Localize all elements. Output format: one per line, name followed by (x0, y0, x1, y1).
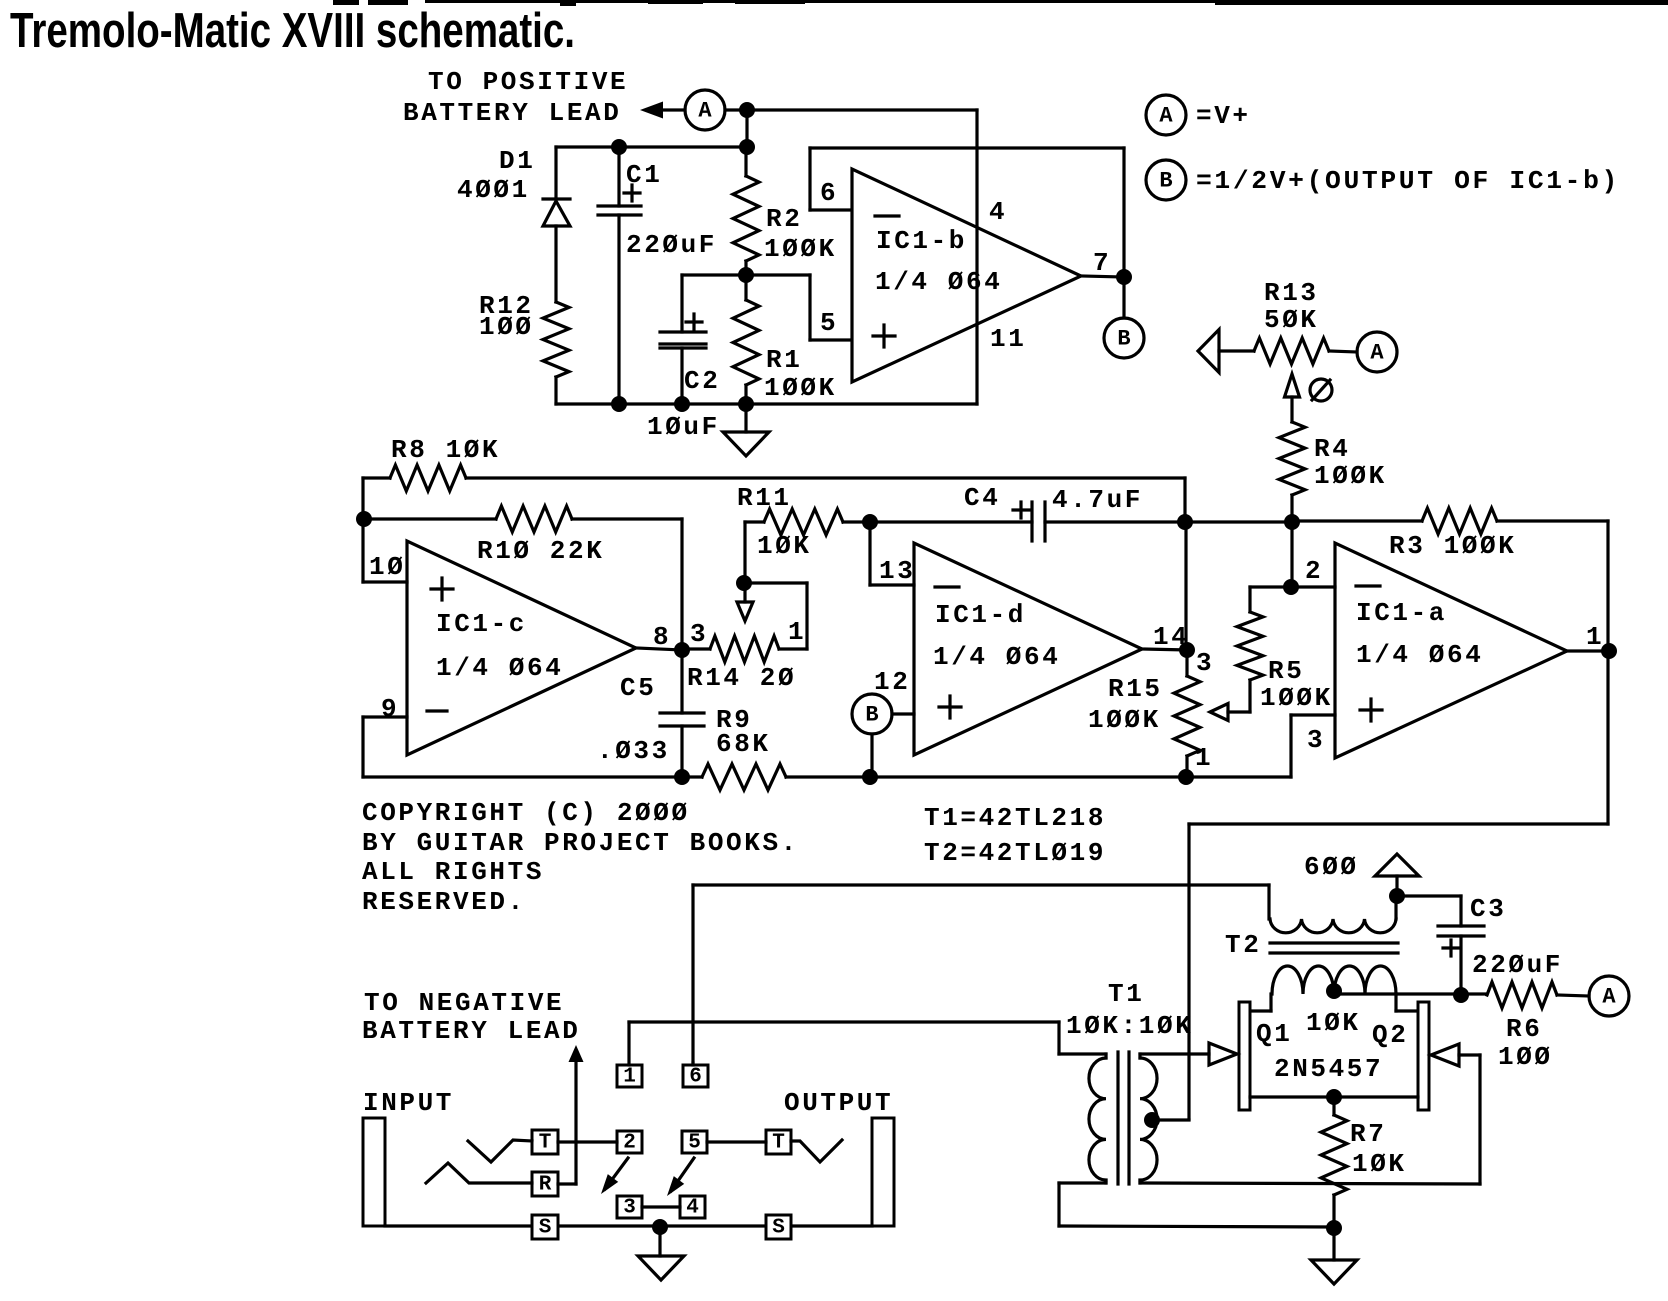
svg-text:A: A (1602, 985, 1616, 1010)
svg-text:Q2: Q2 (1372, 1020, 1408, 1050)
svg-text:BY GUITAR PROJECT BOOKS.: BY GUITAR PROJECT BOOKS. (362, 828, 799, 858)
svg-text:S: S (772, 1217, 785, 1240)
svg-text:Q1: Q1 (1256, 1019, 1292, 1049)
svg-text:6ØØ: 6ØØ (1304, 852, 1359, 882)
svg-text:C1: C1 (626, 160, 662, 190)
svg-text:A: A (698, 99, 712, 124)
svg-text:C3: C3 (1470, 894, 1506, 924)
svg-text:9: 9 (381, 694, 399, 724)
svg-text:R15: R15 (1108, 674, 1163, 704)
svg-text:1ØØ: 1ØØ (1498, 1042, 1553, 1072)
svg-text:3: 3 (1307, 725, 1325, 755)
svg-text:ALL RIGHTS: ALL RIGHTS (362, 857, 544, 887)
svg-text:11: 11 (990, 324, 1026, 354)
svg-text:4: 4 (686, 1197, 699, 1220)
svg-text:BATTERY LEAD: BATTERY LEAD (403, 98, 621, 128)
svg-text:22ØuF: 22ØuF (1472, 950, 1563, 980)
svg-text:22ØuF: 22ØuF (626, 230, 717, 260)
svg-text:1ØØK: 1ØØK (764, 373, 837, 403)
svg-text:OUTPUT: OUTPUT (784, 1088, 893, 1118)
svg-text:R4: R4 (1314, 434, 1350, 464)
svg-text:6: 6 (689, 1066, 702, 1089)
svg-text:T2: T2 (1225, 930, 1261, 960)
svg-text:1: 1 (1195, 743, 1213, 773)
svg-text:1Ø: 1Ø (369, 552, 405, 582)
svg-text:=1/2V+(OUTPUT OF IC1-b): =1/2V+(OUTPUT OF IC1-b) (1196, 166, 1620, 196)
svg-text:D1: D1 (499, 146, 535, 176)
svg-text:1/4 Ø64: 1/4 Ø64 (1356, 640, 1483, 670)
svg-text:R8 1ØK: R8 1ØK (391, 435, 500, 465)
svg-text:R5: R5 (1268, 656, 1304, 686)
svg-text:1ØK:1ØK: 1ØK:1ØK (1066, 1011, 1193, 1041)
svg-text:12: 12 (874, 667, 910, 697)
svg-text:3: 3 (1196, 648, 1214, 678)
svg-text:5: 5 (688, 1132, 701, 1155)
svg-text:TO POSITIVE: TO POSITIVE (428, 67, 628, 97)
svg-text:BATTERY LEAD: BATTERY LEAD (362, 1016, 580, 1046)
svg-text:S: S (539, 1217, 552, 1240)
svg-text:T: T (772, 1132, 785, 1155)
svg-text:4: 4 (989, 197, 1007, 227)
svg-text:13: 13 (879, 556, 915, 586)
svg-text:6: 6 (820, 178, 838, 208)
svg-text:R13: R13 (1264, 278, 1319, 308)
svg-text:2: 2 (623, 1132, 636, 1155)
svg-text:B: B (1117, 327, 1130, 352)
svg-text:R: R (539, 1174, 552, 1197)
svg-text:4ØØ1: 4ØØ1 (457, 175, 530, 205)
svg-text:C2: C2 (684, 366, 720, 396)
svg-text:1ØK: 1ØK (1306, 1008, 1361, 1038)
svg-text:1ØØK: 1ØØK (764, 234, 837, 264)
svg-text:7: 7 (1093, 248, 1111, 278)
svg-text:14: 14 (1153, 622, 1189, 652)
svg-text:3: 3 (623, 1197, 636, 1220)
svg-text:IC1-d: IC1-d (935, 600, 1026, 630)
svg-text:RESERVED.: RESERVED. (362, 887, 526, 917)
svg-text:1: 1 (788, 617, 806, 647)
svg-text:B: B (1159, 169, 1172, 194)
svg-text:T2=42TLØ19: T2=42TLØ19 (924, 838, 1106, 868)
svg-text:R3 1ØØK: R3 1ØØK (1389, 531, 1516, 561)
svg-text:1ØK: 1ØK (1352, 1149, 1407, 1179)
svg-text:1ØØK: 1ØØK (1260, 683, 1333, 713)
svg-text:C5: C5 (620, 673, 656, 703)
svg-text:=V+: =V+ (1196, 101, 1251, 131)
svg-text:C4: C4 (964, 483, 1000, 513)
svg-text:IC1-a: IC1-a (1356, 598, 1447, 628)
svg-text:R14 2Ø: R14 2Ø (687, 663, 796, 693)
svg-text:R11: R11 (737, 483, 792, 513)
svg-text:T: T (539, 1132, 552, 1155)
svg-text:IC1-b: IC1-b (876, 226, 967, 256)
svg-text:1/4 Ø64: 1/4 Ø64 (933, 642, 1060, 672)
svg-text:1ØK: 1ØK (757, 531, 812, 561)
svg-text:1ØuF: 1ØuF (647, 412, 720, 442)
svg-text:1ØØK: 1ØØK (1314, 461, 1387, 491)
svg-text:8: 8 (653, 622, 671, 652)
svg-text:T1: T1 (1108, 979, 1144, 1009)
svg-text:1/4 Ø64: 1/4 Ø64 (436, 653, 563, 683)
svg-text:T1=42TL218: T1=42TL218 (924, 803, 1106, 833)
svg-text:IC1-c: IC1-c (436, 609, 527, 639)
svg-text:R7: R7 (1350, 1119, 1386, 1149)
svg-text:R6: R6 (1506, 1014, 1542, 1044)
svg-text:2: 2 (1305, 556, 1323, 586)
svg-text:R1: R1 (766, 345, 802, 375)
svg-text:1/4 Ø64: 1/4 Ø64 (875, 267, 1002, 297)
svg-text:1ØØK: 1ØØK (1088, 705, 1161, 735)
svg-text:5: 5 (820, 308, 838, 338)
svg-text:TO NEGATIVE: TO NEGATIVE (364, 988, 564, 1018)
svg-text:R1Ø 22K: R1Ø 22K (477, 536, 604, 566)
svg-text:COPYRIGHT (C) 2ØØØ: COPYRIGHT (C) 2ØØØ (362, 798, 690, 828)
svg-text:A: A (1159, 104, 1173, 129)
svg-text:Tremolo-Matic XVIII schematic.: Tremolo-Matic XVIII schematic. (10, 4, 575, 58)
svg-text:1ØØ: 1ØØ (479, 312, 534, 342)
svg-text:INPUT: INPUT (363, 1088, 454, 1118)
svg-text:1: 1 (623, 1066, 636, 1089)
svg-text:68K: 68K (716, 729, 771, 759)
svg-text:3: 3 (690, 619, 708, 649)
svg-text:5ØK: 5ØK (1264, 305, 1319, 335)
svg-text:R2: R2 (766, 204, 802, 234)
svg-text:A: A (1370, 341, 1384, 366)
svg-text:B: B (865, 703, 878, 728)
svg-text:4.7uF: 4.7uF (1052, 485, 1143, 515)
svg-text:.Ø33: .Ø33 (597, 736, 670, 766)
svg-text:1: 1 (1586, 622, 1604, 652)
svg-text:2N5457: 2N5457 (1274, 1054, 1383, 1084)
